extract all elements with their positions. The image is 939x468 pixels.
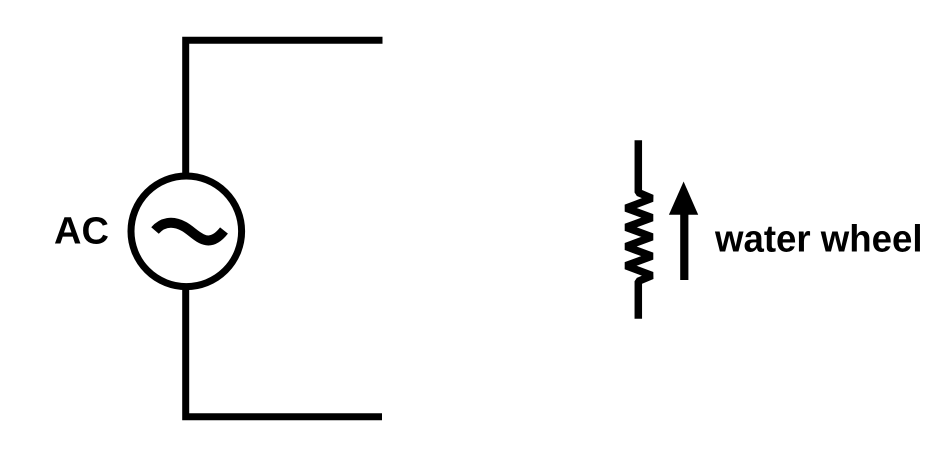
wire bottom loop: from AC source bottom down and right (186, 290, 382, 417)
AC source sine tilde symbol (155, 223, 224, 241)
AC source V1 circle (131, 176, 242, 287)
svg-text:water wheel: water wheel (714, 219, 922, 261)
arrow shaft (current direction up) (680, 212, 688, 280)
resistor R1 (water wheel load) with leads (626, 140, 652, 319)
svg-text:AC: AC (54, 211, 109, 253)
wire top loop: from AC source top up and right (186, 40, 383, 173)
arrow head (669, 182, 698, 215)
